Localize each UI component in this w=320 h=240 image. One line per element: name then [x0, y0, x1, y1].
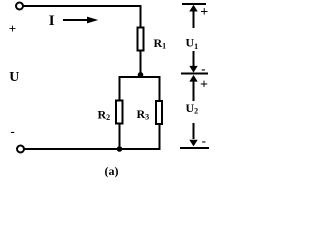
svg-text:-: -: [202, 133, 206, 148]
svg-text:(a): (a): [105, 164, 119, 178]
svg-text:+: +: [200, 78, 208, 93]
svg-text:I: I: [49, 13, 55, 29]
svg-text:+: +: [9, 21, 16, 36]
svg-text:-: -: [10, 124, 14, 139]
svg-text:+: +: [200, 5, 208, 20]
svg-text:U: U: [9, 70, 19, 85]
svg-text:-: -: [201, 61, 205, 76]
